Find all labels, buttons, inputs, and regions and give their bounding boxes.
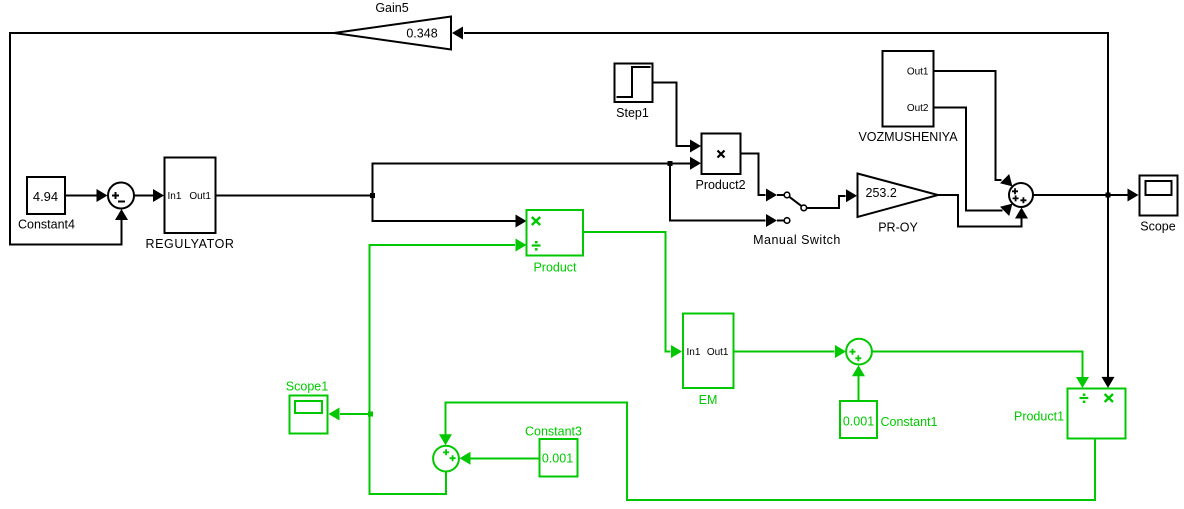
arrowhead into Product2 in1 [690,140,701,153]
wire VOZMUSHENIYA Out1 to Sum3 [934,71,1002,180]
wire node B down branch to Manual Switch [670,164,766,221]
block REGULYATOR [165,157,216,232]
sign plus Sum3 in2 [1013,195,1019,201]
arrowhead into Product1 x (black) [1102,377,1115,388]
sign plus Sum2g in1 [443,449,449,455]
svg-text:4.94: 4.94 [33,189,58,204]
arrowhead into Sum1g left [835,345,846,358]
arrowhead into Product in2 (green) [516,239,527,252]
wire Product to EM [583,232,671,352]
wire Sum2g output to Product and Scope1 [370,245,516,494]
icon Scope screen [1145,181,1171,195]
svg-text:0.001: 0.001 [843,415,874,429]
svg-text:In1: In1 [687,347,701,358]
block Gain5 triangle [334,17,451,50]
wire REGULYATOR output [216,195,373,197]
wire PR-OY to Sum3 [938,195,1022,227]
sign multiply Product [532,217,540,225]
arrowhead into Sum3 bottom [1015,208,1028,219]
wire node A down branch to Product [373,196,516,222]
wire Constant4 to Sum1 [65,195,98,197]
wire Step1 to Product2 [653,83,691,147]
wire Sum3 to Scope [1033,194,1128,196]
svg-text:EM: EM [699,393,718,407]
green wires [340,232,1095,500]
sign minus Sum1 [118,201,125,203]
svg-text:0.001: 0.001 [542,452,573,466]
arrowhead into EM In1 [671,345,682,358]
wire node J3 down to Product1 [1107,195,1109,378]
sign plus Sum1 [112,192,119,199]
sum Sum1 [108,183,134,209]
block Product1 [1068,389,1126,439]
svg-text:Constant4: Constant4 [18,218,75,232]
svg-text:Out1: Out1 [189,191,211,202]
sum Sum2g [433,446,459,472]
block Scope1 [290,396,328,434]
wire Gain5 output to Sum1 [10,33,334,245]
sum Sum3 [1009,183,1033,207]
svg-text:In1: In1 [168,191,182,202]
block Constant4 [27,177,65,214]
sign plus Sum1g in2 [855,355,861,361]
wire feedback top from node J3 to Gain5 [464,33,1108,195]
svg-text:Out2: Out2 [907,103,929,114]
svg-text:Product2: Product2 [695,178,745,192]
svg-text:Out1: Out1 [907,67,929,78]
svg-text:REGULYATOR: REGULYATOR [145,237,234,251]
sign plus Sum1g in1 [850,349,856,355]
sign plus Sum2g in2 [450,455,456,461]
arrowhead into Manual Switch top [766,189,777,202]
arrowhead into Scope1 [329,408,340,421]
block Product (green) [527,210,584,255]
switch Manual Switch [777,192,807,223]
arrowhead Out1 into Sum3 diagonal [1000,174,1017,191]
svg-text:0.348: 0.348 [406,27,437,41]
svg-text:Manual Switch: Manual Switch [753,233,841,247]
wire Sum1g to Product1 [872,352,1083,378]
svg-text:Constant3: Constant3 [525,425,582,439]
arrowhead into Sum1g bottom [852,365,865,376]
svg-text:PR-OY: PR-OY [878,221,918,235]
block Constant1 [840,401,877,438]
block Scope [1140,176,1178,216]
wire Product1 output feedback [446,403,1096,501]
svg-text:VOZMUSHENIYA: VOZMUSHENIYA [858,130,958,144]
sign multiply Product2 [718,151,725,158]
block VOZMUSHENIYA [883,51,934,126]
svg-text:Scope: Scope [1140,220,1175,234]
icon step [617,67,651,97]
svg-text:Scope1: Scope1 [286,380,328,394]
arrowhead Out2 into Sum3 diagonal [1000,199,1017,216]
svg-text:Out1: Out1 [707,347,729,358]
junction node G1 [368,412,373,417]
arrowhead into Sum2g top [439,434,452,445]
svg-text:Product1: Product1 [1014,410,1064,424]
junction node B [668,161,673,166]
block EM [683,314,734,389]
sum Sum1g [846,339,872,365]
wire node A up branch to Product2 [373,164,691,196]
sign divide Product1 [1080,394,1089,404]
svg-text:253.2: 253.2 [866,186,897,200]
arrowhead into Manual Switch bottom [766,214,777,227]
icon Scope1 screen [295,401,322,413]
svg-text:Product: Product [533,261,577,275]
arrowhead into Gain5 [452,27,463,40]
arrowhead into Sum1 bottom [115,209,128,220]
arrowhead into Scope [1128,189,1139,202]
sign plus Sum3 in3 [1020,197,1026,203]
svg-text:Gain5: Gain5 [375,1,408,15]
block Product2 [702,134,741,175]
arrowhead into Product1 div (green) [1076,377,1089,388]
wire Product2 to Manual Switch [741,154,766,196]
junction node A [370,193,375,198]
sign plus Sum3 in1 [1012,188,1018,194]
wire node G1 branch to Scope1 [340,413,370,415]
arrowhead into Product2 in2 [690,157,701,170]
wire Constant3 to Sum2g [471,457,540,459]
block Step1 [615,64,653,103]
arrowhead into Product in1 (black) [516,215,527,228]
wire VOZMUSHENIYA Out2 to Sum3 [934,108,1003,211]
arrowhead into PR-OY [846,189,857,202]
svg-text:Constant1: Constant1 [881,415,938,429]
arrowhead Constant4 into Sum1 [97,189,108,202]
svg-text:Step1: Step1 [616,106,649,120]
block PR-OY gain triangle [858,174,939,218]
wire Constant1 to Sum1g [858,376,860,401]
wire Manual Switch to PR-OY [807,196,846,208]
sign divide Product [532,241,541,251]
wire Sum1 to REGULYATOR [134,195,154,197]
arrowhead into REGULYATOR In1 [153,189,164,202]
arrowhead into Sum2g right [460,452,471,465]
wire EM to Sum1g [734,351,835,353]
junction node J3 [1106,193,1111,198]
block Constant3 [540,439,578,477]
sign multiply Product1 [1105,394,1113,402]
